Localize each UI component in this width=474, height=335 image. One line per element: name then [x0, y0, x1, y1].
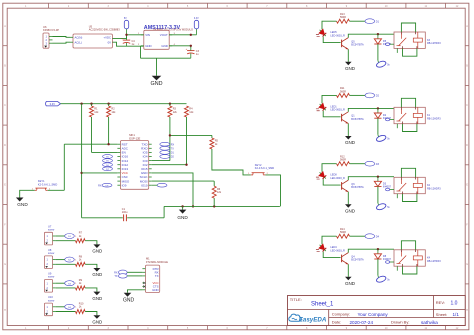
svg-text:Company:: Company: [332, 312, 350, 317]
wire diode to flag [377, 187, 379, 204]
net label RX (TXD) [160, 142, 170, 146]
svg-text:1: 1 [75, 307, 77, 309]
svg-text:TX: TX [171, 148, 174, 151]
svg-text:LED-0603_R: LED-0603_R [330, 177, 345, 180]
svg-text:GND: GND [345, 281, 356, 286]
svg-text:GND: GND [345, 140, 356, 145]
svg-text:A: A [4, 25, 6, 28]
svg-text:BC547BTA: BC547BTA [351, 259, 364, 262]
svg-text:1k: 1k [215, 143, 218, 146]
svg-text:REV:: REV: [436, 300, 445, 305]
svg-text:1k: 1k [79, 282, 82, 285]
svg-text:TX: TX [114, 275, 118, 278]
wire U10 pin1 to net port [56, 306, 65, 308]
svg-text:Your Company: Your Company [358, 312, 389, 317]
svg-text:Drawn By:: Drawn By: [391, 320, 409, 325]
resistor R1 [91, 104, 93, 106]
wire GND right pin to C3 [169, 46, 191, 49]
ground M1 [124, 293, 132, 297]
svg-text:G: G [466, 263, 468, 266]
net port S1 [65, 234, 75, 239]
wire to ground [85, 288, 97, 292]
svg-text:E: E [4, 184, 6, 187]
svg-text:C: C [466, 104, 468, 107]
svg-text:3.3V: 3.3V [194, 18, 199, 20]
svg-text:12k: 12k [111, 111, 116, 114]
wire RST to KEY1 [63, 144, 65, 190]
wire R3 node to R5 [170, 134, 212, 136]
ground Q5 [345, 62, 352, 66]
wire KEY1 to ground [20, 190, 35, 197]
resistor R3 [169, 104, 171, 106]
wire collector to relay [348, 108, 394, 111]
svg-text:IO10: IO10 [141, 183, 148, 187]
svg-text:1k: 1k [79, 235, 82, 238]
ground U7 [93, 244, 100, 248]
svg-text:ESP-12E: ESP-12E [129, 136, 140, 140]
net port S3 [65, 281, 75, 286]
svg-text:1k: 1k [79, 259, 82, 262]
net label IO10 [157, 183, 167, 187]
net port D4 [365, 234, 375, 239]
net flag 5V below diode [376, 275, 387, 283]
net label TX (RXD) [160, 146, 170, 150]
svg-text:sathvika: sathvika [421, 320, 438, 325]
svg-text:C: C [4, 104, 6, 107]
svg-text:Date:: Date: [332, 320, 342, 325]
net flag 3.3V [196, 29, 198, 35]
svg-text:RX: RX [98, 184, 102, 187]
wire U6 pin3 to U5 AC(L) [53, 42, 71, 43]
svg-text:RB-12HDF3: RB-12HDF3 [427, 117, 441, 120]
wire diode to flag [377, 259, 379, 276]
wire RST line [64, 143, 117, 145]
wire emitter to ground [347, 264, 349, 277]
svg-text:BC547BTA: BC547BTA [351, 186, 364, 189]
wire +VDC to VIN node [112, 35, 126, 39]
svg-text:D1: D1 [376, 20, 380, 23]
svg-text:AC(L): AC(L) [75, 40, 82, 44]
svg-text:LED-0603_R: LED-0603_R [330, 109, 345, 112]
wire R5 to KEY2 [212, 149, 251, 175]
svg-text:GND: GND [92, 296, 102, 301]
svg-text:KF950 6.5-3P: KF950 6.5-3P [43, 28, 59, 32]
svg-text:Sheet:: Sheet: [436, 312, 448, 317]
net flag 3.3V rail [46, 102, 61, 106]
wire emitter to ground [347, 124, 349, 137]
svg-text:10: 10 [385, 5, 388, 8]
relay K2 [394, 177, 425, 193]
transistor Q1 [341, 114, 343, 122]
svg-text:0V: 0V [108, 40, 112, 44]
svg-text:1u: 1u [196, 53, 199, 56]
svg-text:F: F [4, 223, 6, 226]
net port D3 [365, 161, 375, 166]
svg-text:G: G [4, 263, 6, 266]
wire VCC drop [81, 104, 83, 218]
svg-text:screw: screw [48, 299, 55, 302]
svg-text:LED-0603_R: LED-0603_R [330, 249, 345, 252]
svg-text:Sheet_1: Sheet_1 [311, 302, 334, 308]
wire to net port [350, 20, 366, 22]
svg-text:TX: TX [155, 274, 159, 278]
svg-text:12: 12 [456, 5, 459, 8]
svg-text:K2-3.6-6.1_SMD: K2-3.6-6.1_SMD [38, 182, 57, 186]
svg-text:12k: 12k [94, 111, 99, 114]
svg-text:1k: 1k [79, 306, 82, 309]
svg-text:VIN: VIN [145, 33, 150, 37]
net label D6 (IO12) [103, 163, 113, 167]
resistor R5 [211, 135, 213, 138]
ground Q1 [345, 136, 352, 140]
net label D5 (IO14) [103, 159, 113, 163]
wire resistor to LED [322, 21, 337, 29]
svg-text:4: 4 [147, 5, 149, 8]
svg-text:VOUT: VOUT [160, 33, 168, 37]
wire collector to relay [348, 177, 394, 180]
net flag 5V below diode [376, 60, 387, 68]
svg-text:screw: screw [48, 276, 55, 279]
ground U9 [93, 292, 100, 296]
diode D5 [377, 33, 379, 35]
relay K1 [394, 107, 425, 123]
svg-text:D: D [4, 144, 6, 147]
wire to net port [350, 163, 366, 165]
net label D0 (IO16) [103, 155, 113, 159]
wire IO0 to R3 [152, 160, 170, 162]
svg-text:7: 7 [266, 5, 268, 8]
wire U8 pin2 to R8 [56, 263, 76, 265]
svg-text:12k: 12k [173, 111, 178, 114]
wire LED to base [323, 179, 340, 185]
svg-text:GND: GND [177, 215, 188, 220]
wire 0V to ground run [112, 42, 126, 46]
net label D7 (IO13) [103, 167, 113, 171]
svg-text:9: 9 [346, 5, 348, 8]
svg-text:GND: GND [123, 297, 135, 303]
wire to net port [350, 235, 366, 237]
svg-text:screw: screw [48, 229, 55, 232]
svg-text:D: D [466, 144, 468, 147]
net port S4 [65, 304, 75, 309]
svg-text:RB-12HDF3: RB-12HDF3 [427, 187, 441, 190]
wire resistor to LED [322, 236, 337, 244]
wire emitter to ground [347, 192, 349, 205]
wire KEY1 right to RST drop [48, 189, 65, 191]
resistor R10 [76, 310, 86, 314]
no-connect marks [143, 282, 145, 284]
svg-text:1: 1 [75, 236, 77, 238]
net flag 5V below diode [376, 134, 387, 142]
svg-text:3.3V: 3.3V [50, 102, 56, 106]
wire 3.3V rail [61, 103, 187, 105]
net label D2 (IO4) [160, 155, 170, 159]
wire ESP GND down [152, 173, 193, 207]
diode D2 [377, 107, 379, 109]
svg-text:H: H [466, 309, 468, 312]
svg-text:560R: 560R [340, 231, 346, 234]
wire MOSI to R6 [152, 180, 215, 182]
svg-text:560R: 560R [340, 16, 346, 19]
title block [288, 296, 466, 326]
wire to ground [85, 264, 97, 268]
svg-text:11: 11 [425, 5, 428, 8]
wire LED to base [323, 37, 340, 43]
wire U9 pin1 to net port [56, 282, 65, 284]
svg-text:GND: GND [151, 81, 163, 87]
ground below U4 [152, 76, 162, 81]
svg-text:5V: 5V [124, 18, 127, 20]
svg-text:BC547BTA: BC547BTA [351, 44, 364, 47]
wire to ground [156, 58, 158, 76]
svg-text:F: F [466, 223, 468, 226]
svg-text:TITLE:: TITLE: [290, 297, 302, 302]
svg-text:RX: RX [114, 272, 118, 275]
net flag 5V below diode [376, 203, 387, 211]
EasyEDA logo [289, 314, 302, 321]
svg-text:BC547BTA: BC547BTA [351, 118, 364, 121]
LED LED8 [315, 170, 328, 183]
capacitor C1 [82, 217, 123, 219]
wire U7 pin1 to net port [56, 235, 65, 237]
resistor R2 [108, 104, 110, 106]
junction VOUT node [190, 34, 192, 36]
svg-text:AC220V/DC-5W_C358883: AC220V/DC-5W_C358883 [89, 28, 120, 32]
net port D2 [365, 93, 375, 98]
LED LED5 [315, 28, 328, 41]
svg-text:5: 5 [187, 5, 189, 8]
svg-text:EasyEDA: EasyEDA [299, 316, 327, 323]
svg-text:GND: GND [161, 44, 167, 48]
svg-text:GND: GND [345, 208, 356, 213]
svg-text:screw: screw [48, 252, 55, 255]
net port S2 [65, 257, 75, 262]
wire collector to relay [348, 249, 394, 252]
svg-text:560R: 560R [340, 159, 346, 162]
svg-text:D2: D2 [171, 156, 175, 159]
ground Q6 [345, 204, 352, 208]
svg-text:FT232RL-MODULE: FT232RL-MODULE [146, 261, 168, 264]
ground Q4 [345, 277, 352, 281]
wire diode to flag [377, 118, 379, 135]
wire U6 pin1 to U5 AC(N) [53, 36, 71, 39]
svg-text:AC(N): AC(N) [75, 35, 83, 39]
net flag 5V [126, 29, 128, 35]
svg-text:A: A [466, 25, 468, 28]
svg-text:1: 1 [25, 5, 27, 8]
resistor R4 [185, 106, 189, 117]
wire C1 to ground rail [163, 206, 165, 217]
svg-text:GND: GND [145, 44, 151, 48]
net label D1 (IO5) [160, 151, 170, 155]
resistor R8 [76, 262, 86, 266]
wire diode to flag [377, 44, 379, 61]
transistor Q4 [341, 255, 343, 263]
svg-text:D2: D2 [376, 95, 380, 98]
svg-text:12k: 12k [189, 111, 194, 114]
svg-text:1/1: 1/1 [453, 312, 460, 317]
svg-text:GND: GND [152, 288, 158, 292]
wire collector to relay [348, 34, 394, 37]
transistor Q6 [341, 182, 343, 190]
wire ground rail [164, 205, 280, 207]
junction rail nodes [80, 103, 82, 105]
svg-text:RB-12HDF3: RB-12HDF3 [427, 260, 441, 263]
wire LED to base [323, 111, 340, 117]
svg-text:560R: 560R [340, 90, 346, 93]
wire R1 to EN [92, 151, 118, 153]
svg-text:1u: 1u [132, 43, 135, 46]
svg-text:H: H [4, 309, 6, 312]
relay K4 [394, 250, 425, 266]
svg-text:B: B [4, 65, 6, 68]
svg-text:B: B [466, 65, 468, 68]
svg-text:D3: D3 [376, 163, 380, 166]
svg-text:3: 3 [108, 5, 110, 8]
svg-text:5v: 5v [387, 63, 390, 66]
svg-text:RX: RX [171, 143, 175, 146]
svg-text:GND: GND [92, 272, 102, 277]
svg-text:LED-0603_R: LED-0603_R [330, 34, 345, 37]
wire to ground [85, 312, 97, 316]
wire ground run under U4 [141, 57, 191, 59]
svg-text:GND: GND [92, 319, 102, 324]
svg-text:K2-3.6-6.1_SMD: K2-3.6-6.1_SMD [255, 166, 274, 170]
resistor R6 [213, 181, 215, 186]
transistor Q5 [341, 40, 343, 48]
LED LED1 [315, 102, 328, 115]
ground U10 [93, 315, 100, 319]
svg-text:RB-12HDF3: RB-12HDF3 [427, 42, 441, 45]
wire resistor to LED [322, 95, 337, 103]
svg-text:GND: GND [17, 202, 28, 207]
wire resistor to LED [322, 164, 337, 172]
svg-text:GND: GND [345, 66, 356, 71]
wire emitter to ground [347, 49, 349, 62]
svg-text:100u: 100u [122, 211, 128, 214]
resistor R9 [76, 286, 86, 290]
svg-text:GND: GND [92, 249, 102, 254]
svg-text:D1: D1 [171, 152, 175, 155]
wire U10 pin2 to R10 [56, 311, 76, 313]
wire LED to base [323, 252, 340, 258]
svg-text:E: E [466, 184, 468, 187]
LED LED4 [315, 243, 328, 256]
wire U7 pin2 to R7 [56, 240, 76, 242]
svg-text:1: 1 [75, 283, 77, 285]
ground mid rail [182, 206, 184, 209]
wire VOUT to 3.3V flag [169, 34, 196, 36]
svg-text:6: 6 [227, 5, 229, 8]
capacitor C4 [123, 39, 130, 41]
wire VCC to ESP [82, 172, 118, 174]
capacitor C3 [187, 50, 194, 52]
svg-text:IO9: IO9 [122, 183, 127, 187]
wire KEY2 to ground rail [265, 175, 280, 207]
svg-text:2: 2 [138, 44, 140, 46]
svg-text:2020-07-24: 2020-07-24 [350, 320, 374, 325]
svg-text:1: 1 [75, 260, 77, 262]
wire to ground [85, 241, 97, 245]
wire GND pin [128, 290, 143, 293]
wire to net port [350, 94, 366, 96]
ground U8 [93, 268, 100, 272]
junction VIN node [125, 34, 127, 36]
svg-text:8: 8 [306, 5, 308, 8]
relay K3 [394, 32, 425, 48]
svg-text:D4: D4 [376, 235, 380, 238]
net port D1 [365, 19, 375, 24]
resistor R7 [76, 239, 86, 243]
svg-text:12k: 12k [217, 191, 222, 194]
svg-text:1.0: 1.0 [451, 301, 458, 307]
svg-text:+VDC: +VDC [103, 35, 111, 39]
wire U8 pin1 to net port [56, 259, 65, 261]
diode D3 [377, 176, 379, 178]
wire U9 pin2 to R9 [56, 287, 76, 289]
ground KEY1 [16, 198, 24, 202]
svg-text:2: 2 [68, 5, 70, 8]
svg-text:5v: 5v [387, 278, 390, 281]
svg-text:5v: 5v [387, 206, 390, 209]
svg-text:5v: 5v [387, 138, 390, 141]
diode D8 [377, 248, 379, 250]
wire IO2 to R4 [152, 164, 187, 166]
